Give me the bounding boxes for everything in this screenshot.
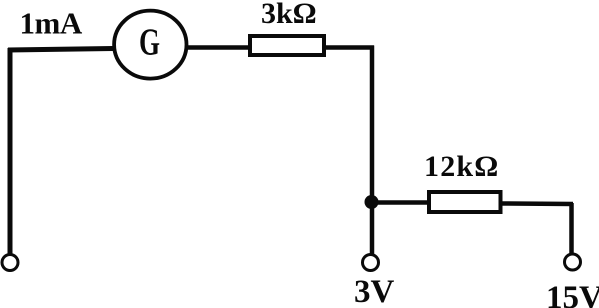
galvanometer G	[114, 11, 186, 79]
svg-text:3kΩ: 3kΩ	[261, 0, 317, 30]
wire R2 to corner	[501, 201, 573, 206]
svg-text:G: G	[139, 22, 160, 64]
terminal 15V	[546, 254, 599, 308]
wire top-left horizontal	[8, 49, 113, 51]
label 1mA	[20, 6, 83, 41]
svg-text:3V: 3V	[354, 274, 395, 308]
wire G to R1	[186, 45, 250, 50]
resistor R1 3kΩ	[250, 0, 324, 55]
svg-text:12kΩ: 12kΩ	[424, 150, 500, 183]
svg-text:15V: 15V	[546, 280, 599, 308]
resistor R2 12kΩ	[424, 150, 501, 212]
wire far-right vertical	[569, 203, 574, 254]
wire junction to R2	[372, 200, 429, 205]
wire right vertical down	[370, 46, 375, 256]
terminal bottom-left	[2, 255, 18, 271]
svg-text:1mA: 1mA	[20, 6, 83, 41]
terminal 3V	[354, 255, 395, 308]
wire left vertical	[8, 48, 13, 254]
wire R1 to corner	[324, 45, 374, 50]
node junction	[365, 195, 379, 209]
